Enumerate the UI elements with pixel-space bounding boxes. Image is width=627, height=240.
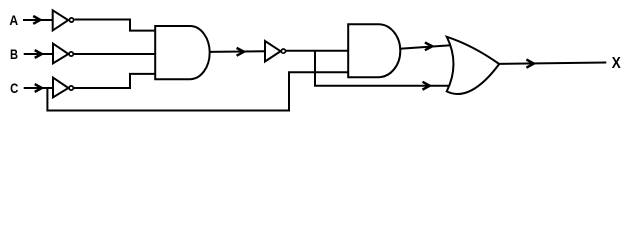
inverter U3 bubble [69, 86, 73, 90]
svg-text:B: B [10, 46, 18, 62]
wire branch to OR bottom input [315, 51, 451, 86]
or-gate U7 [447, 37, 500, 94]
wire AND2 output to OR top input [400, 45, 451, 49]
wire C input lead [24, 87, 53, 89]
wire AND1 output [210, 50, 266, 53]
inverter U1 bubble [69, 18, 73, 22]
inverter U5 triangle [265, 41, 281, 62]
and-gate U6 [348, 24, 400, 77]
wire C' to AND1 bottom input [74, 74, 155, 88]
svg-text:C: C [10, 80, 18, 96]
inverter U2 bubble [69, 52, 73, 56]
wire C branch to bottom rail and AND2 lower input [47, 72, 348, 110]
arrowhead on AND1 output [237, 48, 244, 56]
wire B input lead [24, 53, 53, 55]
wire A input lead [23, 19, 52, 21]
inverter U5 bubble [281, 49, 285, 53]
inverter U3 triangle [53, 78, 68, 98]
arrowhead on C lead [35, 84, 42, 92]
inverter U1 triangle [53, 10, 68, 30]
arrowhead on OR top input [425, 43, 432, 51]
wire B' to AND1 middle input [74, 53, 155, 55]
wire OR output to X [499, 63, 606, 64]
arrowhead on OR bottom input [423, 82, 430, 90]
wire U5 output to AND2 upper input [286, 50, 349, 52]
arrowhead on OR output [526, 60, 533, 68]
svg-text:A: A [9, 12, 18, 28]
and-gate U4 [155, 26, 209, 79]
wire A' to AND1 top input [74, 20, 155, 31]
arrowhead on B lead [35, 50, 42, 58]
arrowhead on A lead [33, 16, 40, 24]
svg-text:X: X [612, 55, 622, 72]
inverter U2 triangle [53, 44, 68, 64]
